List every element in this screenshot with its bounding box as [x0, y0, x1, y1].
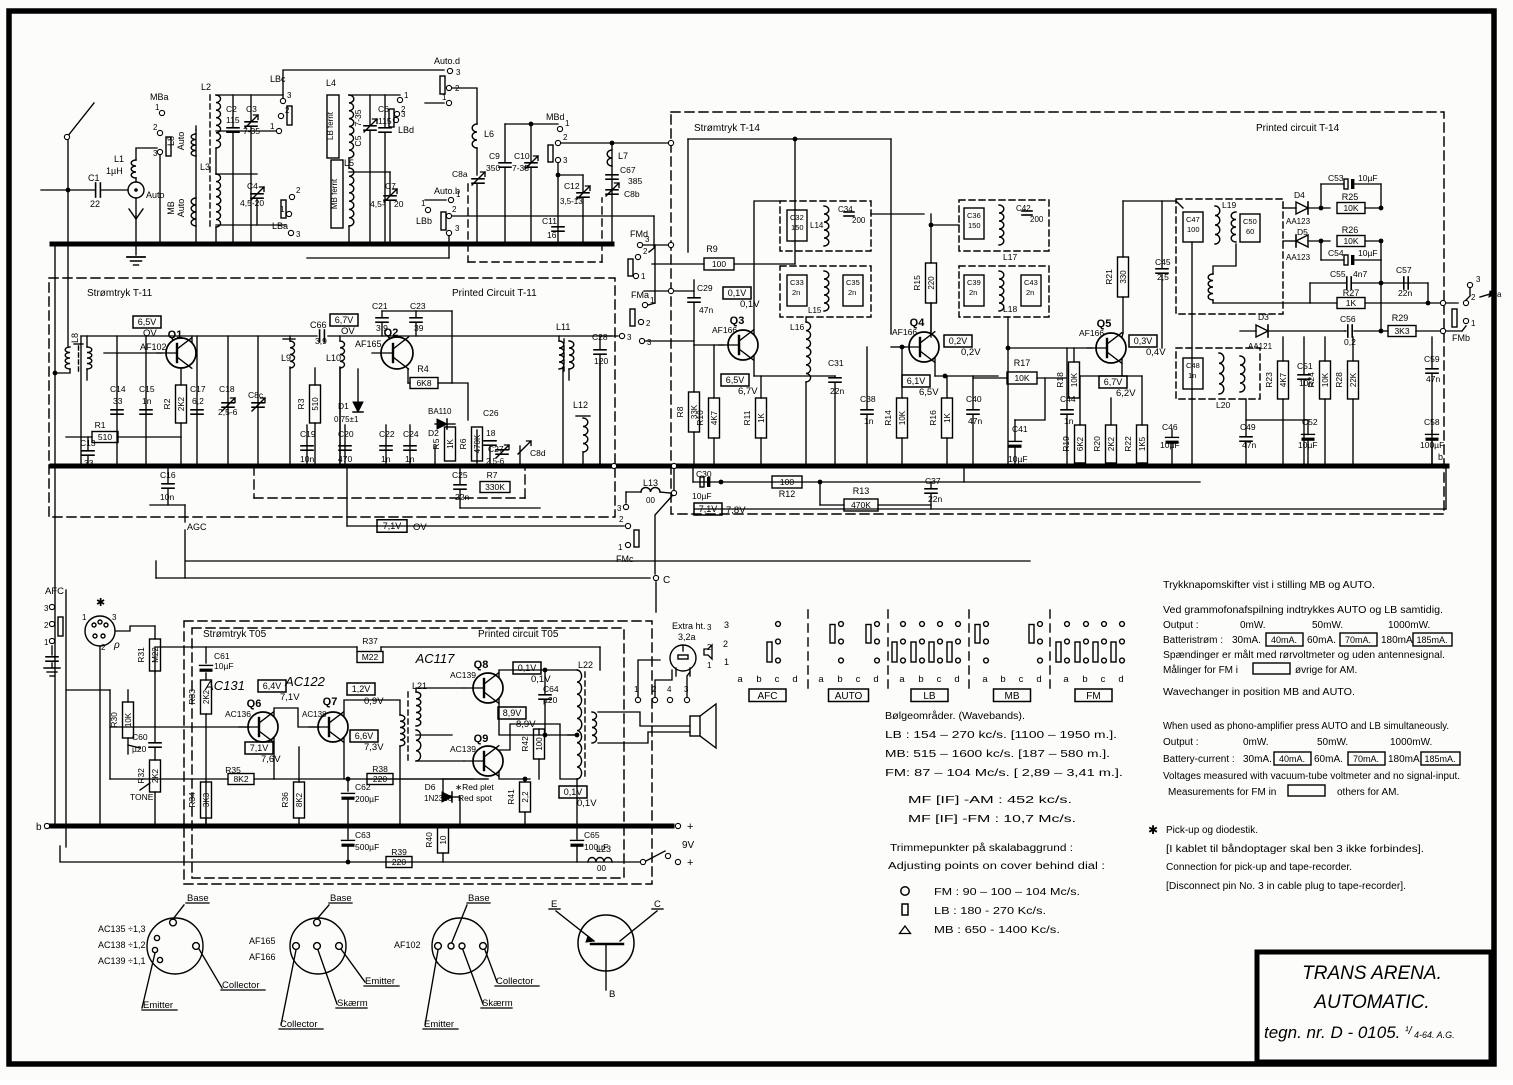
- svg-text:2n: 2n: [969, 288, 977, 297]
- svg-text:40mA.: 40mA.: [1271, 635, 1297, 645]
- svg-text:+: +: [687, 821, 693, 833]
- svg-text:R11: R11: [742, 410, 752, 425]
- switch group LB name box: [911, 689, 948, 702]
- svg-text:¹/: ¹/: [1405, 1025, 1413, 1037]
- svg-text:R22: R22: [1123, 436, 1133, 452]
- svg-text:Auto: Auto: [176, 132, 186, 151]
- svg-text:C4: C4: [247, 181, 258, 191]
- svg-text:C66: C66: [310, 320, 327, 330]
- wire C9/C10 top to MBd: [505, 123, 558, 125]
- svg-text:AC139: AC139: [450, 744, 476, 754]
- wire L21 secondary bottom to Q9 base: [416, 760, 464, 762]
- wire C21/C23 jumper: [382, 310, 452, 312]
- voltage 6,5V at Q3: [721, 374, 749, 386]
- switch group AUTO name box: [829, 689, 869, 702]
- svg-text:10µF: 10µF: [1358, 173, 1378, 183]
- svg-text:2K2: 2K2: [177, 396, 186, 411]
- trimmer C8d: [518, 441, 531, 454]
- svg-text:6,4V: 6,4V: [263, 681, 282, 691]
- resistor R6: [472, 427, 483, 461]
- svg-text:10K: 10K: [1014, 373, 1029, 383]
- svg-text:LBb: LBb: [416, 216, 432, 226]
- svg-text:3: 3: [647, 338, 652, 347]
- svg-text:L15: L15: [808, 306, 822, 315]
- svg-text:AFC: AFC: [758, 691, 778, 702]
- coil L4 winding: [349, 95, 354, 158]
- wire LBb3 below bus: [448, 236, 450, 258]
- svg-text:0,3V: 0,3V: [1134, 336, 1153, 346]
- svg-text:C14: C14: [110, 384, 126, 394]
- wire Q7 collector to L21: [344, 700, 400, 716]
- svg-text:3,2a: 3,2a: [678, 632, 696, 642]
- svg-text:Strømtryk T-14: Strømtryk T-14: [694, 123, 760, 134]
- wire Q5 emitter: [1121, 359, 1123, 376]
- svg-text:180mA.: 180mA.: [1388, 754, 1422, 765]
- svg-text:3: 3: [455, 224, 460, 233]
- svg-text:AFC: AFC: [45, 586, 64, 597]
- svg-text:a: a: [982, 674, 988, 685]
- svg-text:d: d: [954, 674, 959, 685]
- voltage 0,1V at Q9 output: [559, 786, 587, 798]
- svg-text:MBa: MBa: [150, 92, 169, 102]
- svg-text:L13: L13: [643, 478, 658, 488]
- svg-text:C9: C9: [489, 151, 500, 161]
- antenna transformer L8 windings: [195, 130, 197, 244]
- resistor R33: [201, 680, 212, 714]
- svg-text:4K7: 4K7: [1279, 372, 1288, 387]
- svg-text:Ved grammofonafspilning indt: Ved grammofonafspilning indtrykkes AUTO …: [1163, 605, 1443, 616]
- svg-text:C24: C24: [403, 429, 419, 439]
- wire L22 to bus: [576, 779, 578, 826]
- svg-text:10µF: 10µF: [692, 491, 712, 501]
- resistor R3: [310, 385, 321, 423]
- svg-text:b: b: [837, 674, 842, 685]
- svg-text:R3: R3: [296, 398, 306, 409]
- svg-text:4K7: 4K7: [710, 410, 719, 425]
- svg-text:C63: C63: [355, 830, 371, 840]
- svg-text:4: 4: [667, 685, 672, 694]
- svg-text:470K: 470K: [473, 434, 482, 453]
- svg-text:R24: R24: [1306, 372, 1316, 388]
- svg-text:MB: MB: [166, 201, 176, 215]
- main negative bus (middle): [52, 464, 1447, 469]
- svg-text:R12: R12: [779, 489, 796, 499]
- transistor Q9: [473, 746, 503, 776]
- svg-text:C57: C57: [1396, 265, 1412, 275]
- svg-text:C48: C48: [1186, 361, 1200, 370]
- wire Q3 base: [694, 344, 724, 346]
- trimmer C5: [364, 125, 376, 127]
- small speaker glyph: [704, 645, 712, 659]
- svg-text:R29: R29: [1392, 313, 1409, 323]
- svg-text:180mA: 180mA: [1381, 635, 1413, 646]
- boxed 40mA (danish line): [1266, 633, 1303, 646]
- resistor R41: [520, 782, 531, 812]
- wire L21 secondary tap: [416, 734, 452, 736]
- svg-text:C: C: [663, 575, 670, 586]
- svg-text:1K: 1K: [757, 412, 766, 422]
- svg-text:R21: R21: [1104, 269, 1114, 285]
- svg-text:C52: C52: [1302, 417, 1318, 427]
- svg-text:R33: R33: [187, 689, 197, 705]
- svg-text:47n: 47n: [699, 305, 713, 315]
- svg-text:MBd: MBd: [546, 112, 565, 122]
- svg-text:3,5-13: 3,5-13: [560, 197, 583, 206]
- svg-text:R40: R40: [424, 832, 434, 848]
- svg-text:6K2: 6K2: [1076, 436, 1085, 451]
- svg-text:R19: R19: [1061, 436, 1071, 452]
- wire MB tank top: [349, 171, 390, 173]
- svg-text:C40: C40: [966, 394, 982, 404]
- svg-text:Bølgeområder. (Wavebands).: Bølgeområder. (Wavebands).: [885, 710, 1025, 722]
- svg-text:0,1V: 0,1V: [518, 663, 537, 673]
- terminals right of C6: [397, 97, 402, 102]
- svg-text:R41: R41: [506, 789, 516, 805]
- driver transformer L21 primary: [400, 715, 405, 746]
- wire AGC feedback top line: [688, 138, 891, 140]
- svg-text:Q7: Q7: [323, 696, 338, 708]
- svg-text:c: c: [937, 674, 942, 685]
- AFC terminal 1: [49, 638, 54, 643]
- svg-text:R23: R23: [1264, 372, 1274, 388]
- svg-text:7,1V: 7,1V: [250, 743, 269, 753]
- svg-text:L19: L19: [1222, 200, 1236, 210]
- svg-text:AF102: AF102: [140, 342, 167, 352]
- svg-text:c: c: [856, 674, 861, 685]
- boxed 40mA (english line): [1274, 752, 1311, 765]
- wire L22 center tap: [568, 734, 577, 736]
- svg-text:1: 1: [565, 119, 570, 128]
- switch group FM contacts: [1065, 622, 1070, 627]
- voltage 7,1V below T-14: [694, 503, 722, 515]
- svg-text:Output :: Output :: [1163, 620, 1199, 631]
- svg-text:a: a: [899, 674, 905, 685]
- svg-text:1: 1: [82, 613, 87, 622]
- pinout AF102 circle: [432, 918, 488, 974]
- svg-text:3: 3: [563, 156, 568, 165]
- switch group AFC contacts: [776, 622, 781, 627]
- wire FM terminals to T-14: [643, 244, 668, 246]
- svg-text:3: 3: [287, 91, 292, 100]
- svg-text:1n: 1n: [405, 454, 415, 464]
- svg-text:Trimmepunkter på skalabaggr: Trimmepunkter på skalabaggrund :: [890, 842, 1073, 854]
- svg-text:2: 2: [707, 643, 712, 652]
- svg-text:330: 330: [1119, 270, 1128, 284]
- svg-text:10µF: 10µF: [214, 661, 234, 671]
- svg-text:0,2V: 0,2V: [961, 347, 981, 358]
- svg-text:L22: L22: [578, 660, 593, 670]
- svg-text:M22: M22: [151, 647, 160, 663]
- svg-text:185mA.: 185mA.: [1424, 754, 1455, 764]
- svg-text:C1: C1: [88, 173, 100, 183]
- svg-text:C62: C62: [355, 782, 371, 792]
- svg-text:2: 2: [1471, 293, 1476, 302]
- svg-text:b: b: [1000, 674, 1005, 685]
- svg-text:[Disconnect pin No. 3 in c: [Disconnect pin No. 3 in cable plug to t…: [1166, 881, 1406, 892]
- wire C57 right down: [1427, 283, 1429, 303]
- AFC wire down to gnd cap: [51, 646, 53, 655]
- driver transformer L21 secondary: [416, 692, 421, 726]
- svg-text:8K2: 8K2: [295, 792, 304, 807]
- svg-text:C19: C19: [300, 429, 316, 439]
- wire Q4 column link: [963, 466, 965, 482]
- svg-text:OV: OV: [341, 326, 355, 337]
- svg-text:10K: 10K: [898, 410, 907, 425]
- svg-text:Red spot: Red spot: [458, 793, 493, 803]
- svg-text:FMb: FMb: [1452, 333, 1470, 343]
- svg-text:C17: C17: [190, 384, 206, 394]
- svg-text:C5: C5: [353, 135, 363, 146]
- AM ground bus (top): [52, 242, 612, 247]
- svg-text:3: 3: [456, 68, 461, 77]
- svg-text:0,2V: 0,2V: [949, 336, 968, 346]
- resistor R14: [897, 398, 908, 438]
- svg-text:10µF: 10µF: [1358, 248, 1378, 258]
- AFC terminal 3: [49, 604, 54, 609]
- svg-text:00: 00: [646, 496, 655, 505]
- svg-text:When used as phono-amplifie: When used as phono-amplifier press AUTO …: [1163, 721, 1449, 732]
- title block frame: [1257, 952, 1491, 1062]
- svg-text:R4: R4: [417, 364, 429, 374]
- svg-text:R14: R14: [883, 410, 893, 426]
- dashed box Printed circuit T05 inner: [192, 628, 624, 878]
- svg-text:C10: C10: [514, 151, 530, 161]
- svg-text:7,8V: 7,8V: [726, 505, 746, 516]
- voltage 7,1V at Q6 emitter: [245, 742, 273, 754]
- svg-text:AF165: AF165: [249, 936, 276, 946]
- wire L21 primary bottom: [399, 746, 401, 826]
- pinout AF165/AF166 circle: [290, 918, 346, 974]
- svg-text:AF166: AF166: [712, 325, 737, 335]
- resistor R42: [534, 729, 545, 759]
- wire LBc3 to Autod: [283, 70, 444, 98]
- svg-text:LB: LB: [923, 691, 936, 702]
- dashed box Stromtryk T-11: [49, 278, 615, 517]
- wire Q1 base: [104, 352, 162, 354]
- svg-text:AF102: AF102: [394, 940, 421, 950]
- svg-text:L8: L8: [70, 333, 80, 343]
- diagonal wire to C node: [655, 496, 672, 574]
- svg-text:L8: L8: [166, 136, 176, 146]
- wire R31 top to connector: [115, 626, 155, 631]
- svg-text:22K: 22K: [1349, 372, 1358, 387]
- tone arrow: [140, 783, 150, 790]
- svg-text:200: 200: [852, 216, 866, 225]
- voltage 1,2V at Q7: [347, 683, 375, 695]
- wire IF2 secondary to Q5 base: [1007, 317, 1009, 466]
- svg-text:200µF: 200µF: [355, 794, 379, 804]
- resistor R11: [756, 398, 767, 438]
- svg-text:AA121: AA121: [1248, 342, 1273, 351]
- svg-text:Measurements for FM in: Measurements for FM in: [1168, 787, 1276, 798]
- AFC terminal 2: [49, 621, 54, 626]
- resistor R28: [1348, 361, 1359, 399]
- svg-text:M22: M22: [362, 652, 379, 662]
- svg-text:C65: C65: [584, 830, 600, 840]
- svg-text:200: 200: [1030, 215, 1044, 224]
- wire Q8 collector to L22 top: [499, 670, 577, 677]
- svg-text:0,9V: 0,9V: [364, 696, 384, 707]
- voltage 6,4V at Q6: [258, 680, 286, 692]
- svg-text:OV: OV: [143, 328, 157, 339]
- svg-text:C21: C21: [372, 301, 388, 311]
- svg-text:7,6V: 7,6V: [261, 754, 281, 765]
- wire Q3 emitter: [753, 356, 755, 376]
- output transformer L22 secondary: [592, 712, 597, 743]
- svg-text:b: b: [36, 822, 42, 833]
- wire C52 link: [1246, 419, 1308, 421]
- svg-text:ρ: ρ: [113, 640, 120, 651]
- switch group LB contacts: [901, 622, 906, 627]
- svg-text:C11: C11: [542, 216, 557, 226]
- svg-text:Adjusting points on cover: Adjusting points on cover behind dial :: [888, 861, 1105, 872]
- svg-text:LB : 180 - 270 Kc/s.: LB : 180 - 270 Kc/s.: [934, 906, 1046, 917]
- svg-text:C53: C53: [1328, 173, 1344, 183]
- svg-text:AUTOMATIC.: AUTOMATIC.: [1313, 992, 1429, 1013]
- svg-text:L10: L10: [326, 353, 341, 363]
- voltage 6,6V at Q7: [350, 730, 378, 742]
- svg-text:2n: 2n: [1026, 288, 1034, 297]
- voltage 0,1V at Q3: [723, 287, 751, 299]
- svg-text:R10: R10: [695, 410, 705, 426]
- svg-text:D2: D2: [428, 428, 439, 438]
- svg-text:50mW.: 50mW.: [1312, 620, 1343, 631]
- svg-text:3: 3: [296, 230, 301, 239]
- svg-text:1: 1: [618, 543, 623, 552]
- svg-text:3: 3: [627, 333, 632, 342]
- svg-text:C60: C60: [132, 732, 148, 742]
- resistor R12: [772, 476, 802, 488]
- svg-text:D6: D6: [425, 782, 436, 792]
- tank bottom wire LB: [216, 130, 279, 132]
- svg-text:10K: 10K: [1070, 372, 1079, 387]
- T-14 below-bus rail 2: [695, 508, 1446, 510]
- svg-text:R34: R34: [187, 792, 197, 808]
- svg-text:7,3V: 7,3V: [364, 742, 384, 753]
- svg-text:C45: C45: [1155, 257, 1171, 267]
- svg-text:1K: 1K: [1346, 298, 1357, 308]
- tube pins: [675, 668, 677, 676]
- voltage 0,3V at Q5: [1129, 335, 1157, 347]
- svg-text:R32: R32: [136, 768, 146, 784]
- svg-text:2,5-6: 2,5-6: [218, 407, 238, 417]
- svg-text:OV: OV: [413, 522, 427, 533]
- wire Q6 collector to Q7 base: [274, 708, 319, 727]
- svg-text:C37: C37: [925, 476, 941, 486]
- resistor R31: [150, 639, 161, 671]
- svg-text:R39: R39: [391, 847, 407, 857]
- svg-text:70mA.: 70mA.: [1345, 635, 1371, 645]
- svg-text:B: B: [609, 989, 615, 1000]
- terminal C node: [653, 575, 658, 580]
- svg-text:9V: 9V: [682, 840, 695, 851]
- wire to C12: [558, 174, 583, 176]
- svg-text:18: 18: [486, 428, 496, 438]
- wire Q3 collector to IF1: [754, 201, 780, 334]
- transistor Q6: [248, 712, 278, 742]
- wire IF1 to Q4 top rail: [871, 213, 924, 215]
- svg-text:d: d: [792, 674, 797, 685]
- svg-text:6,7V: 6,7V: [738, 386, 758, 397]
- svg-text:10n: 10n: [300, 454, 314, 464]
- loudspeaker: [690, 716, 700, 736]
- transistor Q4: [909, 332, 939, 362]
- svg-text:2: 2: [452, 205, 457, 214]
- svg-text:1: 1: [270, 122, 275, 131]
- svg-text:10K: 10K: [1343, 236, 1358, 246]
- svg-text:1: 1: [456, 190, 461, 199]
- bus junction dots mid: [66, 464, 71, 469]
- svg-text:6,6V: 6,6V: [355, 731, 374, 741]
- svg-text:✱: ✱: [1148, 823, 1158, 837]
- coil L7 and C67/C8b column: [611, 143, 613, 244]
- on-off switch S1: [640, 859, 645, 864]
- aerial symbol: [135, 198, 137, 216]
- long wire to C terminal: [156, 577, 650, 579]
- svg-text:3: 3: [707, 623, 712, 632]
- wire T-11 drops: [80, 336, 82, 466]
- svg-text:1n: 1n: [1188, 371, 1196, 380]
- wire Q1 collector: [191, 336, 193, 342]
- svg-text:Q1: Q1: [168, 329, 183, 341]
- resistor R22: [1137, 425, 1148, 463]
- svg-text:7,1V: 7,1V: [699, 504, 718, 514]
- svg-text:C12: C12: [564, 181, 580, 191]
- svg-text:øvrige for AM.: øvrige for AM.: [1295, 665, 1357, 676]
- AFC coupling contact bar: [58, 617, 63, 636]
- wire rail into L19: [1176, 201, 1183, 208]
- svg-text:C20: C20: [338, 429, 354, 439]
- transformer L2/L3 core: [209, 95, 211, 228]
- svg-text:LBd: LBd: [398, 125, 414, 135]
- svg-text:1: 1: [404, 91, 409, 100]
- svg-text:33: 33: [113, 396, 123, 406]
- svg-text:+: +: [687, 857, 693, 869]
- IF transformer box 3 (L17): [959, 200, 1049, 251]
- resistor R34: [201, 782, 212, 818]
- svg-text:MB: MB: [1005, 691, 1020, 702]
- svg-text:C35: C35: [846, 278, 860, 287]
- svg-text:4-64. A.G.: 4-64. A.G.: [1414, 1030, 1455, 1040]
- wire Q9 emitter resistor row: [443, 778, 473, 780]
- terminal FMc pin 3: [625, 492, 627, 503]
- resistor R10: [709, 398, 720, 438]
- svg-text:2: 2: [619, 515, 624, 524]
- svg-text:1000mW.: 1000mW.: [1388, 620, 1430, 631]
- voltage 6,7V at Q5: [1099, 376, 1127, 388]
- svg-text:C61: C61: [214, 651, 230, 661]
- svg-text:✱: ✱: [96, 597, 105, 609]
- open junctions on bus: [611, 463, 616, 468]
- svg-text:1n: 1n: [381, 454, 391, 464]
- svg-text:1K: 1K: [943, 412, 952, 422]
- svg-text:385: 385: [628, 176, 642, 186]
- svg-text:500µF: 500µF: [355, 842, 379, 852]
- svg-text:C8d: C8d: [530, 448, 546, 458]
- svg-text:Målinger for FM i: Målinger for FM i: [1163, 664, 1238, 676]
- svg-text:LBa: LBa: [272, 221, 288, 231]
- svg-text:47n: 47n: [1426, 374, 1440, 384]
- wire Autod2 to L6: [452, 88, 477, 124]
- svg-text:2: 2: [101, 643, 106, 652]
- svg-text:c: c: [1101, 674, 1106, 685]
- svg-text:1: 1: [724, 657, 729, 667]
- wire Q9 collector to L22 bottom: [499, 724, 577, 779]
- svg-text:R27: R27: [1343, 288, 1360, 298]
- svg-text:0,1V: 0,1V: [564, 787, 583, 797]
- svg-text:1n: 1n: [142, 396, 152, 406]
- svg-text:Strømtryk T-11: Strømtryk T-11: [87, 288, 153, 299]
